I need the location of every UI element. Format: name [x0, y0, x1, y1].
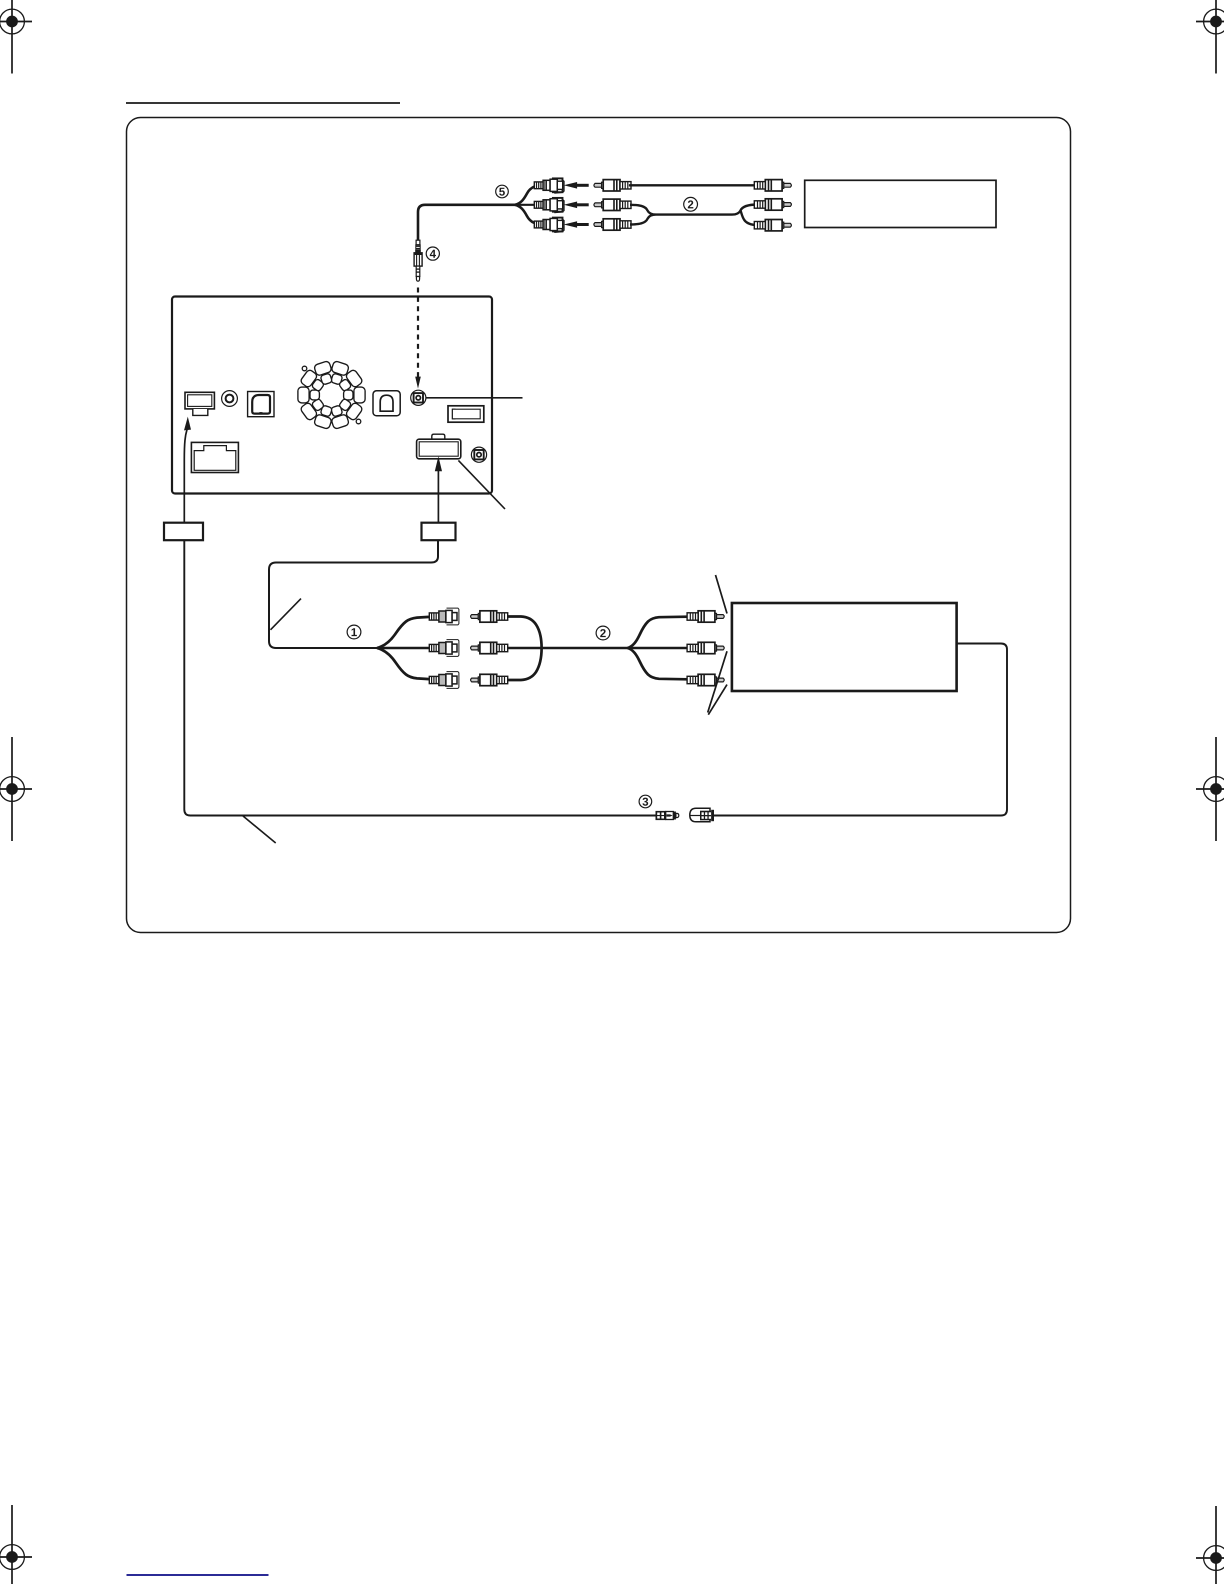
spade terminal female [690, 808, 714, 822]
expansion connector [448, 406, 484, 422]
RCA plug 2 right [754, 199, 791, 210]
RCA plug 3 right [754, 220, 791, 231]
3.5mm plug item4 [414, 240, 422, 281]
RCA plug 3 to amplifier [687, 674, 724, 685]
RCA jack 1 item1 [429, 608, 459, 625]
dashed arrow to AUX [415, 288, 421, 389]
extension cable wire [418, 205, 515, 241]
splitter item5 branches [515, 187, 534, 223]
label 4 [426, 247, 439, 260]
pigtail wire from right box [269, 540, 438, 648]
power harness connector [417, 434, 461, 459]
remote connector [185, 392, 214, 415]
registration mark middle-left [0, 737, 32, 841]
label 1 [347, 625, 361, 639]
cable top straight [629, 184, 757, 186]
registration mark top-left [0, 0, 32, 74]
splitter to amplifier [628, 617, 688, 680]
RCA plug 1 to amplifier [687, 611, 724, 622]
bottom blue rule [127, 1574, 269, 1576]
optical connector [248, 392, 274, 417]
RCA plug 2 item2-left [471, 642, 508, 653]
ground wire right [714, 644, 1007, 816]
leader bottom plug [708, 685, 727, 715]
RCA plug 1 item2-left [471, 611, 508, 622]
AUX callout line [426, 397, 523, 399]
registration mark middle-right [1196, 737, 1224, 841]
RCA plug 2 to amplifier [687, 642, 724, 653]
splitter item1 branches [377, 617, 429, 679]
video output jack [471, 447, 486, 462]
top rule [126, 102, 400, 104]
RCA plug 3 left [594, 219, 631, 230]
RCA plug 2 left [594, 199, 631, 210]
RCA jack 3 item1 [429, 672, 459, 689]
spade terminal male [656, 811, 679, 820]
USB port [373, 391, 400, 416]
RCA extension jack 3 item5 [534, 218, 564, 233]
cooling fan [298, 361, 365, 430]
arrow to remote connector [184, 417, 191, 523]
RCA jack 2 item1 [429, 640, 459, 657]
cable loop left [630, 205, 758, 226]
RCA extension jack 1 item5 [534, 178, 564, 193]
leader tick bottom-left [243, 816, 276, 843]
main connector [191, 442, 238, 472]
leader mid plug [708, 651, 727, 712]
arrow 3 [564, 221, 589, 228]
RCA plug 1 left [594, 180, 631, 191]
RCA plug 1 right [754, 180, 791, 191]
registration mark bottom-left [0, 1505, 32, 1589]
AUX input jack [411, 390, 426, 405]
cables merging item2 [507, 617, 627, 681]
RCA extension jack 2 item5 [534, 198, 564, 213]
ground wire left [184, 540, 655, 815]
RCA plug 3 item2-left [471, 674, 508, 685]
amplifier box [732, 603, 957, 691]
arrow 1 [564, 182, 589, 189]
label 2 top [684, 197, 698, 211]
label 5 [496, 185, 509, 198]
registration mark top-right [1196, 0, 1224, 74]
label 2 bottom [596, 626, 610, 640]
registration mark bottom-right [1196, 1506, 1224, 1589]
left label box [164, 523, 203, 541]
leader to amp top plug [716, 575, 728, 614]
head unit rear panel [172, 297, 492, 494]
arrow to power connector [435, 456, 442, 522]
right label box [422, 523, 456, 541]
monitor box [805, 180, 996, 227]
antenna jack [222, 391, 238, 407]
label 3 [639, 795, 652, 808]
page frame [127, 118, 1071, 933]
leader tick near corner [271, 599, 302, 630]
arrow 2 [564, 202, 589, 209]
leader from power connector [458, 460, 505, 509]
